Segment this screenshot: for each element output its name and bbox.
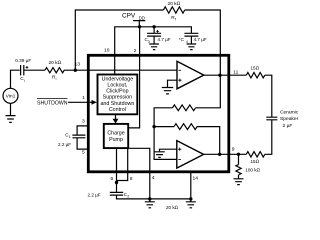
op-amp U1b <box>177 141 204 169</box>
wire - input (U1b) <box>154 108 177 160</box>
wire pin6 <box>116 148 118 192</box>
wire UVL to charge pump <box>115 114 117 119</box>
label minus U1b <box>178 159 181 161</box>
wire speaker bottom <box>265 120 272 155</box>
svg-text:13: 13 <box>75 61 81 67</box>
ground (U1b +) <box>154 152 165 158</box>
svg-text:20 kΩ: 20 kΩ <box>168 1 181 7</box>
wire output pin 9 <box>203 153 246 155</box>
svg-text:Pump: Pump <box>109 137 123 143</box>
block UVL box <box>98 75 138 115</box>
svg-text:4.7 µF: 4.7 µF <box>158 37 171 42</box>
svg-text:CPV: CPV <box>122 12 136 19</box>
ground (U1a +) <box>162 88 173 94</box>
wire pin8 <box>117 148 128 180</box>
svg-text:9: 9 <box>232 146 235 152</box>
svg-text:DD: DD <box>139 15 145 20</box>
ground (C4) <box>187 44 197 50</box>
wire + input to ground (U1b) <box>160 149 177 151</box>
resistor internal 20k input <box>173 105 196 111</box>
svg-text:4: 4 <box>186 40 188 44</box>
resistor 100k <box>236 154 241 179</box>
arrow shutdown <box>92 100 97 105</box>
node U1b output <box>218 153 221 156</box>
wire SHUTDOWN <box>68 101 92 103</box>
resistor Rf <box>163 7 184 13</box>
wire top rail right <box>185 10 221 75</box>
ground (100k) <box>234 179 244 185</box>
svg-text:SHUTDOWN: SHUTDOWN <box>37 100 68 106</box>
node gnd pin4 <box>148 197 151 200</box>
wire pin13 to opamp <box>64 69 177 71</box>
svg-text:15Ω: 15Ω <box>251 159 260 164</box>
svg-text:20 kΩ: 20 kΩ <box>166 205 179 210</box>
wire pin14 <box>190 172 192 199</box>
wire input <box>11 70 20 88</box>
svg-text:Suppression: Suppression <box>103 95 132 101</box>
wire charge pump gnd to pin 4 <box>129 148 150 199</box>
svg-text:8: 8 <box>130 176 133 182</box>
node CPVDD pin2 <box>138 25 141 28</box>
svg-text:0.39 µF: 0.39 µF <box>15 58 31 63</box>
wire top rail <box>75 10 163 70</box>
svg-text:10: 10 <box>104 47 110 53</box>
svg-text:Ceramic: Ceramic <box>280 110 299 116</box>
node pin11 <box>218 74 221 77</box>
resistor internal 20k feedback <box>174 124 197 130</box>
svg-text:4.7 µF: 4.7 µF <box>194 37 207 42</box>
svg-text:f: f <box>175 18 176 22</box>
svg-text:2: 2 <box>134 48 137 54</box>
svg-text:2 µF: 2 µF <box>283 123 293 129</box>
svg-text:2.2 µF: 2.2 µF <box>88 192 101 197</box>
wire to speaker <box>265 75 272 117</box>
capacitor C1 <box>72 135 85 138</box>
node U1b inverting <box>152 125 155 128</box>
wire output pin 11 <box>204 74 247 76</box>
svg-text:Click/Pop: Click/Pop <box>106 89 128 95</box>
svg-text:*C: *C <box>179 37 185 42</box>
svg-text:Lockout,: Lockout, <box>107 83 127 89</box>
svg-text:3: 3 <box>148 40 150 44</box>
node pin13 <box>74 69 77 72</box>
block text charge pump <box>107 131 124 144</box>
node pin9 <box>237 153 240 156</box>
svg-text:2: 2 <box>127 195 129 199</box>
svg-text:Control: Control <box>109 107 126 113</box>
label Ci plus <box>26 66 29 69</box>
arrow UVL to charge pump <box>113 119 119 124</box>
svg-text:5: 5 <box>82 149 85 155</box>
svg-text:1: 1 <box>69 135 71 139</box>
wire input R to pin11 node <box>196 75 221 108</box>
wire + input to ground (U1a) <box>168 80 178 87</box>
capacitor C2 <box>110 192 123 195</box>
CPVDD terminal <box>133 21 145 27</box>
svg-text:4: 4 <box>152 175 155 181</box>
svg-text:Vin1: Vin1 <box>6 94 16 100</box>
ground (C3) <box>149 44 159 50</box>
svg-text:2.2 µF: 2.2 µF <box>58 142 71 147</box>
svg-text:11: 11 <box>233 69 238 75</box>
svg-text:1: 1 <box>82 95 85 101</box>
svg-text:100 kΩ: 100 kΩ <box>245 167 260 172</box>
wire C2 to ground rail <box>117 195 191 199</box>
resistor Ri <box>45 68 64 73</box>
block charge pump box <box>104 124 128 148</box>
node gnd pin14 <box>189 197 192 200</box>
wire feedback to output <box>197 127 220 155</box>
IC boundary box <box>88 55 229 172</box>
svg-text:14: 14 <box>193 176 199 182</box>
capacitor Ci <box>21 65 24 75</box>
wire pin3 to C1 <box>77 126 88 135</box>
capacitor C3 <box>147 27 161 44</box>
node C3 tap <box>152 25 155 28</box>
node pin6/8 <box>115 181 118 184</box>
svg-text:3: 3 <box>82 118 85 124</box>
label minus U1a <box>179 69 182 71</box>
capacitor ceramic speaker <box>266 117 277 120</box>
block text UVL <box>100 77 134 114</box>
wire CPVDD rail <box>115 27 192 74</box>
label plus U1a <box>178 79 181 82</box>
label plus U1b <box>178 148 181 151</box>
svg-text:Charge: Charge <box>107 131 124 137</box>
source Vin1 <box>3 88 18 103</box>
ground (Vin1) <box>6 103 16 122</box>
ground (pin14) <box>186 199 196 208</box>
svg-text:15Ω: 15Ω <box>251 65 260 70</box>
wire <box>24 69 45 71</box>
wire pin5 to C1 <box>77 138 88 149</box>
capacitor C4 <box>184 33 198 44</box>
resistor 15ohm bottom <box>246 152 264 157</box>
wire pin2 vertical <box>129 27 140 128</box>
op-amp U1a <box>177 61 204 89</box>
svg-text:Speaker: Speaker <box>280 116 299 122</box>
resistor 15ohm top <box>246 73 264 78</box>
svg-text:6: 6 <box>111 176 114 182</box>
wire feedback row (U1b) <box>154 126 174 128</box>
label C3 plus <box>156 30 159 33</box>
ground (pin4) <box>145 199 155 208</box>
svg-text:20 kΩ: 20 kΩ <box>49 60 62 66</box>
